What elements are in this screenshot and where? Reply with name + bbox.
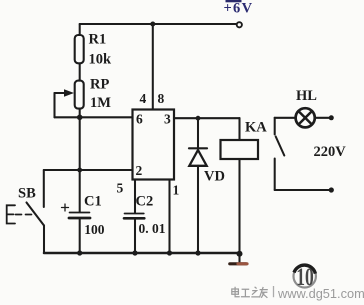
- wire: SB bottom to rail: [43, 226, 45, 254]
- RP wiper arrowhead: [64, 89, 74, 97]
- svg-text:C2: C2: [136, 194, 154, 210]
- junction node pin2/C1: [77, 168, 82, 173]
- relay contact KA blade: [276, 137, 285, 156]
- C1 polarity plus sign: [62, 204, 69, 211]
- svg-text:SB: SB: [18, 186, 36, 202]
- lamp HL cross: [299, 111, 312, 124]
- svg-text:8: 8: [158, 91, 165, 106]
- capacitor C1 bottom plate: [69, 217, 90, 220]
- svg-text:RP: RP: [90, 77, 109, 93]
- svg-text:1M: 1M: [90, 95, 111, 111]
- watermark glyph dian: [232, 287, 240, 297]
- junction node VD top: [196, 116, 201, 121]
- wire: IC pin 1 to ground rail: [168, 180, 170, 254]
- watermark glyph gong: [241, 289, 250, 297]
- terminal dot lamp right: [329, 115, 334, 120]
- svg-text:4: 4: [140, 91, 147, 106]
- switch SB button (E shape): [7, 205, 15, 223]
- IC U1 (555) body: [133, 110, 175, 180]
- switch SB actuator dashed link: [16, 214, 35, 216]
- svg-text:6: 6: [136, 112, 143, 127]
- wire: VD anode to ground rail: [197, 166, 199, 253]
- watermark glyph zhi: [251, 287, 259, 297]
- RP wiper arrow: [55, 92, 67, 94]
- svg-text:0. 01: 0. 01: [139, 221, 166, 236]
- svg-text:10k: 10k: [89, 52, 113, 68]
- terminal dot 220V bottom: [329, 187, 334, 192]
- wire: output corner down to relay coil: [238, 118, 240, 140]
- wire: contact lower lead: [274, 159, 276, 191]
- lamp HL circle: [296, 108, 315, 127]
- wire: bottom ground rail: [44, 252, 240, 255]
- wire: contact upper lead: [274, 118, 276, 135]
- wire: RP bottom to node: [79, 109, 81, 118]
- figure number circle top arc: [294, 265, 315, 273]
- wire: IC pin 3 output to relay: [174, 117, 240, 119]
- junction rail pin1: [167, 250, 172, 255]
- capacitor C2 top plate: [125, 213, 144, 215]
- svg-text:C1: C1: [84, 194, 102, 210]
- wire: node down to C1: [79, 170, 81, 212]
- junction dot at rail/IC supply: [150, 22, 155, 27]
- wire: left branch drop from rail to R1: [79, 24, 81, 34]
- wire: lamp left lead: [275, 117, 296, 119]
- svg-text:100: 100: [84, 222, 105, 237]
- switch SB upper contact wire: [43, 170, 45, 207]
- potentiometer RP: [75, 81, 84, 109]
- svg-text:KA: KA: [245, 120, 267, 136]
- svg-text:www.dg51.com: www.dg51.com: [277, 286, 364, 301]
- svg-text:VD: VD: [204, 169, 225, 185]
- capacitor C2 bottom plate: [124, 217, 144, 220]
- svg-text:1: 1: [173, 183, 180, 198]
- wire: SB to IC pin 2: [44, 169, 133, 171]
- wire: vertical node link pin6-to-pin2: [79, 117, 81, 170]
- resistor R1: [75, 35, 84, 63]
- terminal +6V open circle: [237, 22, 242, 27]
- svg-text:3: 3: [164, 112, 171, 127]
- junction rail C1: [77, 250, 82, 255]
- junction node pin6/RP: [77, 115, 83, 121]
- wire: relay coil to ground stub: [238, 159, 240, 262]
- diode VD cathode bar: [189, 147, 207, 149]
- wire: RP wiper down-link: [53, 93, 55, 117]
- ground symbol bar: [230, 262, 246, 265]
- cropped watermark smudge top: [226, 0, 242, 2]
- capacitor C1 top plate: [70, 212, 90, 214]
- figure number circle 10: [294, 265, 316, 287]
- ground symbol bar red tint: [238, 262, 247, 265]
- svg-text:+6V: +6V: [224, 1, 254, 17]
- wire: C1 to ground rail: [79, 218, 81, 253]
- svg-text:HL: HL: [296, 88, 317, 104]
- switch SB blade: [27, 203, 45, 226]
- junction rail VD: [195, 250, 200, 255]
- svg-text:2: 2: [136, 163, 143, 178]
- svg-text:5: 5: [117, 181, 124, 196]
- wire: R1 to RP: [79, 64, 81, 81]
- wire: IC pin 5 to C2: [134, 180, 136, 214]
- diode VD triangle: [189, 150, 206, 166]
- svg-text:220V: 220V: [314, 144, 347, 160]
- wire: bottom 220V lead: [275, 189, 330, 191]
- relay coil KA: [221, 140, 259, 159]
- wire: node to IC pin 6: [80, 116, 133, 118]
- wire: top +6V rail: [80, 23, 237, 25]
- svg-text:R1: R1: [89, 32, 107, 48]
- wire: +6V rail to IC pins 4,8: [152, 24, 154, 110]
- wire: wiper link to node: [55, 116, 80, 118]
- watermark glyph you: [260, 287, 268, 298]
- watermark separator bar: [273, 286, 275, 297]
- wire: C2 to ground rail: [134, 218, 136, 253]
- junction rail end / coil: [237, 251, 243, 257]
- wire: lamp right lead: [315, 117, 330, 119]
- junction rail C2: [132, 250, 137, 255]
- wire: VD branch down: [197, 118, 199, 148]
